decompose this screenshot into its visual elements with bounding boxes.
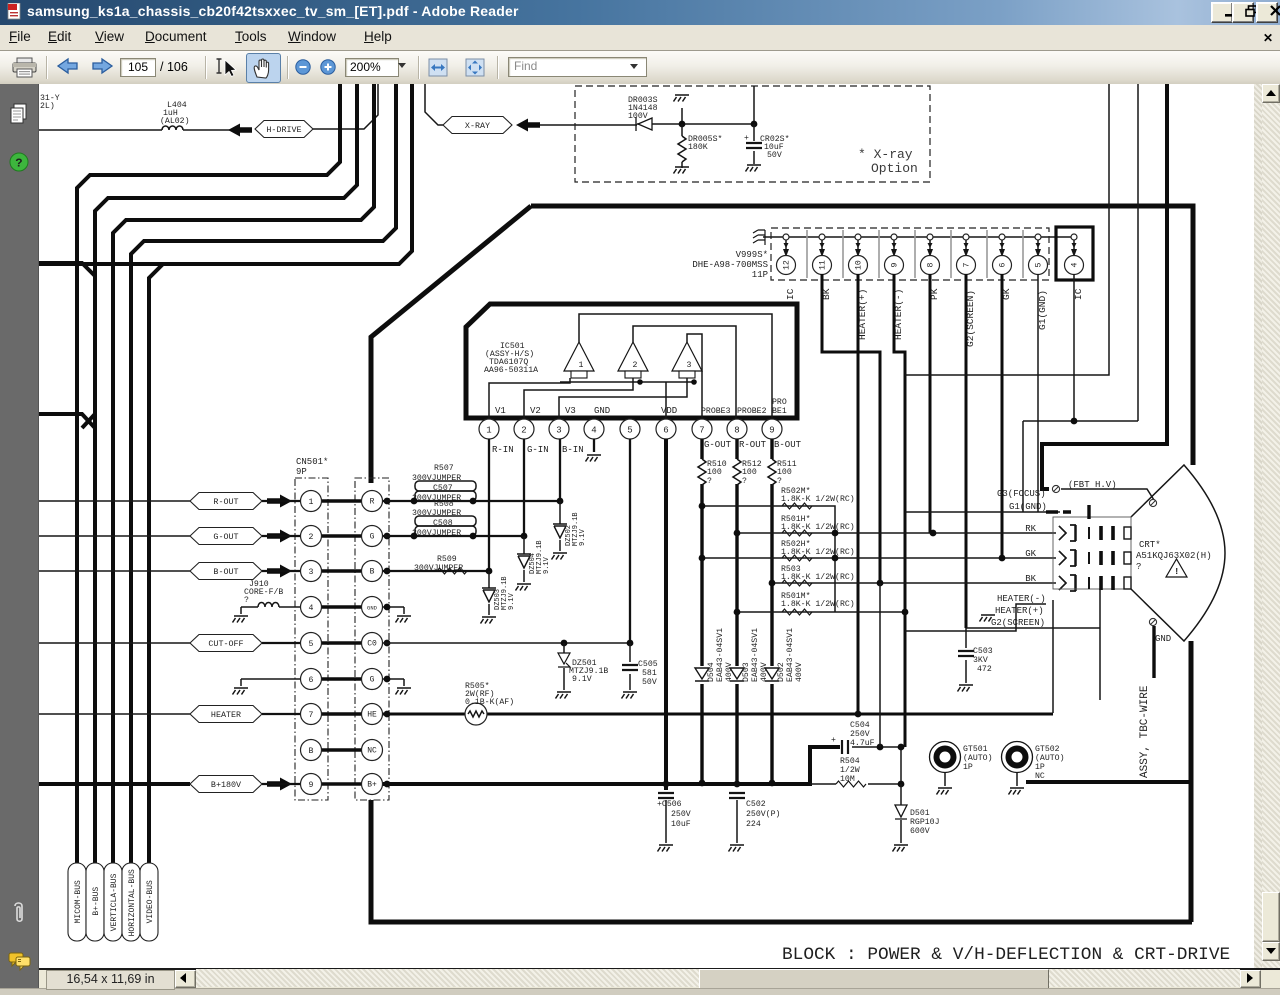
svg-text:6: 6 [309,676,314,685]
svg-text:PRO: PRO [772,398,787,407]
svg-text:6: 6 [663,426,668,436]
svg-text:G3(FOCUS): G3(FOCUS) [997,489,1046,499]
svg-text:11P: 11P [752,270,768,280]
svg-text:GT502: GT502 [1035,745,1060,754]
svg-text:G-IN: G-IN [527,445,549,455]
svg-text:GND: GND [1155,634,1171,644]
svg-text:5: 5 [627,426,632,436]
svg-text:D503: D503 [742,662,751,682]
svg-text:5: 5 [309,640,314,649]
svg-text:A51KQJ63X02(H): A51KQJ63X02(H) [1136,551,1212,561]
svg-text:+: + [831,736,836,745]
svg-text:PROBE3: PROBE3 [701,407,731,416]
svg-text:C504: C504 [850,721,870,730]
svg-text:R508: R508 [434,500,454,509]
svg-text:GK: GK [1025,549,1036,559]
svg-text:9: 9 [769,426,774,436]
svg-text:9.1V: 9.1V [543,556,551,574]
svg-text:EAB43-04SV1: EAB43-04SV1 [786,628,795,682]
svg-text:R-OUT: R-OUT [213,497,238,507]
svg-text:G-OUT: G-OUT [213,532,238,542]
svg-text:GND: GND [367,605,378,612]
svg-text:B+: B+ [367,781,377,790]
svg-text:HE: HE [367,711,377,720]
svg-text:C0: C0 [367,640,377,649]
svg-text:(AUTO): (AUTO) [963,753,992,763]
svg-text:B-IN: B-IN [562,445,584,455]
svg-text:R504: R504 [840,757,860,766]
svg-text:3KV: 3KV [973,656,988,665]
svg-text:1/2W: 1/2W [840,765,860,775]
svg-text:C503: C503 [973,647,993,656]
svg-text:V1: V1 [495,406,506,416]
svg-text:1.8K-K 1/2W(RC): 1.8K-K 1/2W(RC) [781,599,855,609]
svg-text:CRT*: CRT* [1139,540,1161,550]
svg-text:8: 8 [734,426,739,436]
svg-text:400V: 400V [795,662,804,682]
svg-text:1.8K-K 1/2W(RC): 1.8K-K 1/2W(RC) [781,572,855,582]
svg-text:AA96-50311A: AA96-50311A [484,366,538,375]
svg-text:2: 2 [633,361,638,370]
svg-text:581: 581 [642,669,657,678]
svg-text:100: 100 [707,468,722,477]
svg-text:1P: 1P [1035,763,1045,772]
svg-text:180K: 180K [688,143,708,152]
svg-text:GND: GND [594,406,610,416]
svg-text:R-OUT: R-OUT [739,440,767,450]
svg-text:9: 9 [309,781,314,790]
svg-text:+C506: +C506 [657,800,682,809]
svg-text:250V: 250V [850,730,870,739]
svg-text:EAB43-04SV1: EAB43-04SV1 [716,628,725,682]
svg-text:VDD: VDD [661,406,677,416]
svg-text:472: 472 [977,665,992,674]
svg-text:250V: 250V [671,810,691,819]
svg-text:300VJUMPER: 300VJUMPER [412,509,461,518]
svg-text:4: 4 [309,604,314,613]
svg-text:100: 100 [742,468,757,477]
svg-text:C502: C502 [746,800,766,809]
svg-text:B+180V: B+180V [211,780,241,790]
svg-text:5: 5 [1035,263,1044,268]
svg-text:8: 8 [927,263,936,268]
svg-text:B+-BUS: B+-BUS [92,887,101,916]
svg-text:12: 12 [783,260,792,270]
svg-text:G: G [370,676,375,685]
svg-text:1: 1 [309,498,314,507]
svg-text:B: B [309,747,314,756]
svg-text:9.1V: 9.1V [572,675,592,684]
svg-text:224: 224 [746,820,761,829]
svg-text:ASSY, TBC-WIRE: ASSY, TBC-WIRE [1139,685,1151,778]
svg-text:D502: D502 [777,662,786,682]
svg-text:3: 3 [687,361,692,370]
svg-text:CN501*: CN501* [296,457,328,467]
svg-text:50V: 50V [767,151,782,160]
svg-text:600V: 600V [910,827,930,836]
svg-text:2L): 2L) [40,101,55,111]
svg-text:C507: C507 [433,484,453,493]
svg-text:C508: C508 [433,519,453,528]
svg-text:BLOCK : POWER & V/H-DEFLECTION: BLOCK : POWER & V/H-DEFLECTION & CRT-DRI… [782,945,1230,965]
svg-text:4.7uF: 4.7uF [850,739,875,748]
svg-text:X-RAY: X-RAY [465,121,490,131]
svg-text:HEATER(-): HEATER(-) [997,594,1046,604]
svg-text:B: B [370,568,375,577]
svg-text:100: 100 [777,468,792,477]
svg-text:1: 1 [579,361,584,370]
svg-text:RGP10J: RGP10J [910,818,939,827]
svg-text:50V: 50V [642,678,657,687]
svg-text:R509: R509 [437,555,457,564]
svg-text:9: 9 [891,263,900,268]
svg-text:H-DRIVE: H-DRIVE [266,125,301,135]
svg-text:MICOM-BUS: MICOM-BUS [74,880,83,923]
svg-text:?: ? [742,477,747,486]
svg-text:7: 7 [963,263,972,268]
svg-text:9.1V: 9.1V [579,528,587,546]
svg-text:CUT-OFF: CUT-OFF [208,639,243,649]
svg-text:* X-ray: * X-ray [858,147,913,162]
svg-text:300VJUMPER: 300VJUMPER [412,529,461,538]
svg-text:0.1B-K(AF): 0.1B-K(AF) [465,697,514,707]
svg-text:?: ? [777,477,782,486]
svg-text:EAB43-04SV1: EAB43-04SV1 [751,628,760,682]
svg-text:G2(SCREEN): G2(SCREEN) [991,618,1045,628]
svg-text:R-IN: R-IN [492,445,514,455]
svg-text:(AL02): (AL02) [160,116,189,126]
svg-text:C505: C505 [638,660,658,669]
svg-text:VIDEO-BUS: VIDEO-BUS [146,880,155,923]
svg-text:G-OUT: G-OUT [704,440,732,450]
svg-text:1.8K-K 1/2W(RC): 1.8K-K 1/2W(RC) [781,522,855,532]
svg-text:7: 7 [699,426,704,436]
svg-text:HEATER: HEATER [211,710,241,720]
svg-text:10: 10 [855,260,864,270]
svg-text:BE1: BE1 [772,407,787,416]
svg-text:VERTICLA-BUS: VERTICLA-BUS [110,873,119,931]
svg-text:D501: D501 [910,809,930,818]
svg-text:HEATER(+): HEATER(+) [995,606,1044,616]
svg-text:V3: V3 [565,406,576,416]
svg-text:D504: D504 [707,662,716,682]
svg-text:2: 2 [309,533,314,542]
svg-text:10uF: 10uF [671,820,691,829]
svg-text:4: 4 [591,426,596,436]
svg-text:?: ? [1136,562,1141,572]
svg-text:10M: 10M [840,775,855,784]
svg-text:2: 2 [521,426,526,436]
svg-text:RK: RK [1025,524,1036,534]
svg-text:B-OUT: B-OUT [213,567,238,577]
svg-text:CORE-F/B: CORE-F/B [244,587,283,597]
svg-text:6: 6 [999,263,1008,268]
svg-text:250V(P): 250V(P) [746,809,780,819]
svg-text:(AUTO): (AUTO) [1035,753,1064,763]
svg-text:100V: 100V [628,112,648,121]
svg-text:300VJUMPER: 300VJUMPER [414,564,463,573]
svg-text:HORIZONTAL-BUS: HORIZONTAL-BUS [128,869,137,936]
svg-text:?: ? [15,157,22,171]
svg-text:11: 11 [819,260,828,270]
svg-text:4: 4 [1071,263,1080,268]
svg-text:NC: NC [367,747,377,756]
svg-text:3: 3 [309,568,314,577]
svg-text:NC: NC [1035,772,1045,781]
svg-text:1.8K-K 1/2W(RC): 1.8K-K 1/2W(RC) [781,494,855,504]
svg-text:Option: Option [871,161,918,176]
svg-text:V2: V2 [530,406,541,416]
svg-text:3: 3 [556,426,561,436]
svg-text:IC: IC [785,288,796,300]
svg-text:9P: 9P [296,467,307,477]
svg-text:1.8K-K 1/2W(RC): 1.8K-K 1/2W(RC) [781,547,855,557]
svg-text:BK: BK [1025,574,1036,584]
svg-text:V999S*: V999S* [736,250,768,260]
svg-text:7: 7 [309,711,314,720]
svg-text:1: 1 [486,426,491,436]
svg-text:1P: 1P [963,763,973,772]
svg-text:G: G [370,533,375,542]
svg-text:!: ! [1174,567,1179,577]
svg-text:PROBE2: PROBE2 [737,407,767,416]
svg-text:?: ? [707,477,712,486]
svg-text:?: ? [244,596,249,605]
svg-text:GT501: GT501 [963,745,988,754]
svg-text:G1(GND): G1(GND) [1009,502,1047,512]
svg-text:R507: R507 [434,464,454,473]
svg-text:300VJUMPER: 300VJUMPER [412,474,461,483]
svg-text:9.1V: 9.1V [508,592,516,610]
svg-text:R: R [370,498,375,507]
svg-text:+: + [744,134,749,143]
svg-text:DHE-A98-700MSS: DHE-A98-700MSS [692,260,768,270]
svg-text:B-OUT: B-OUT [774,440,802,450]
